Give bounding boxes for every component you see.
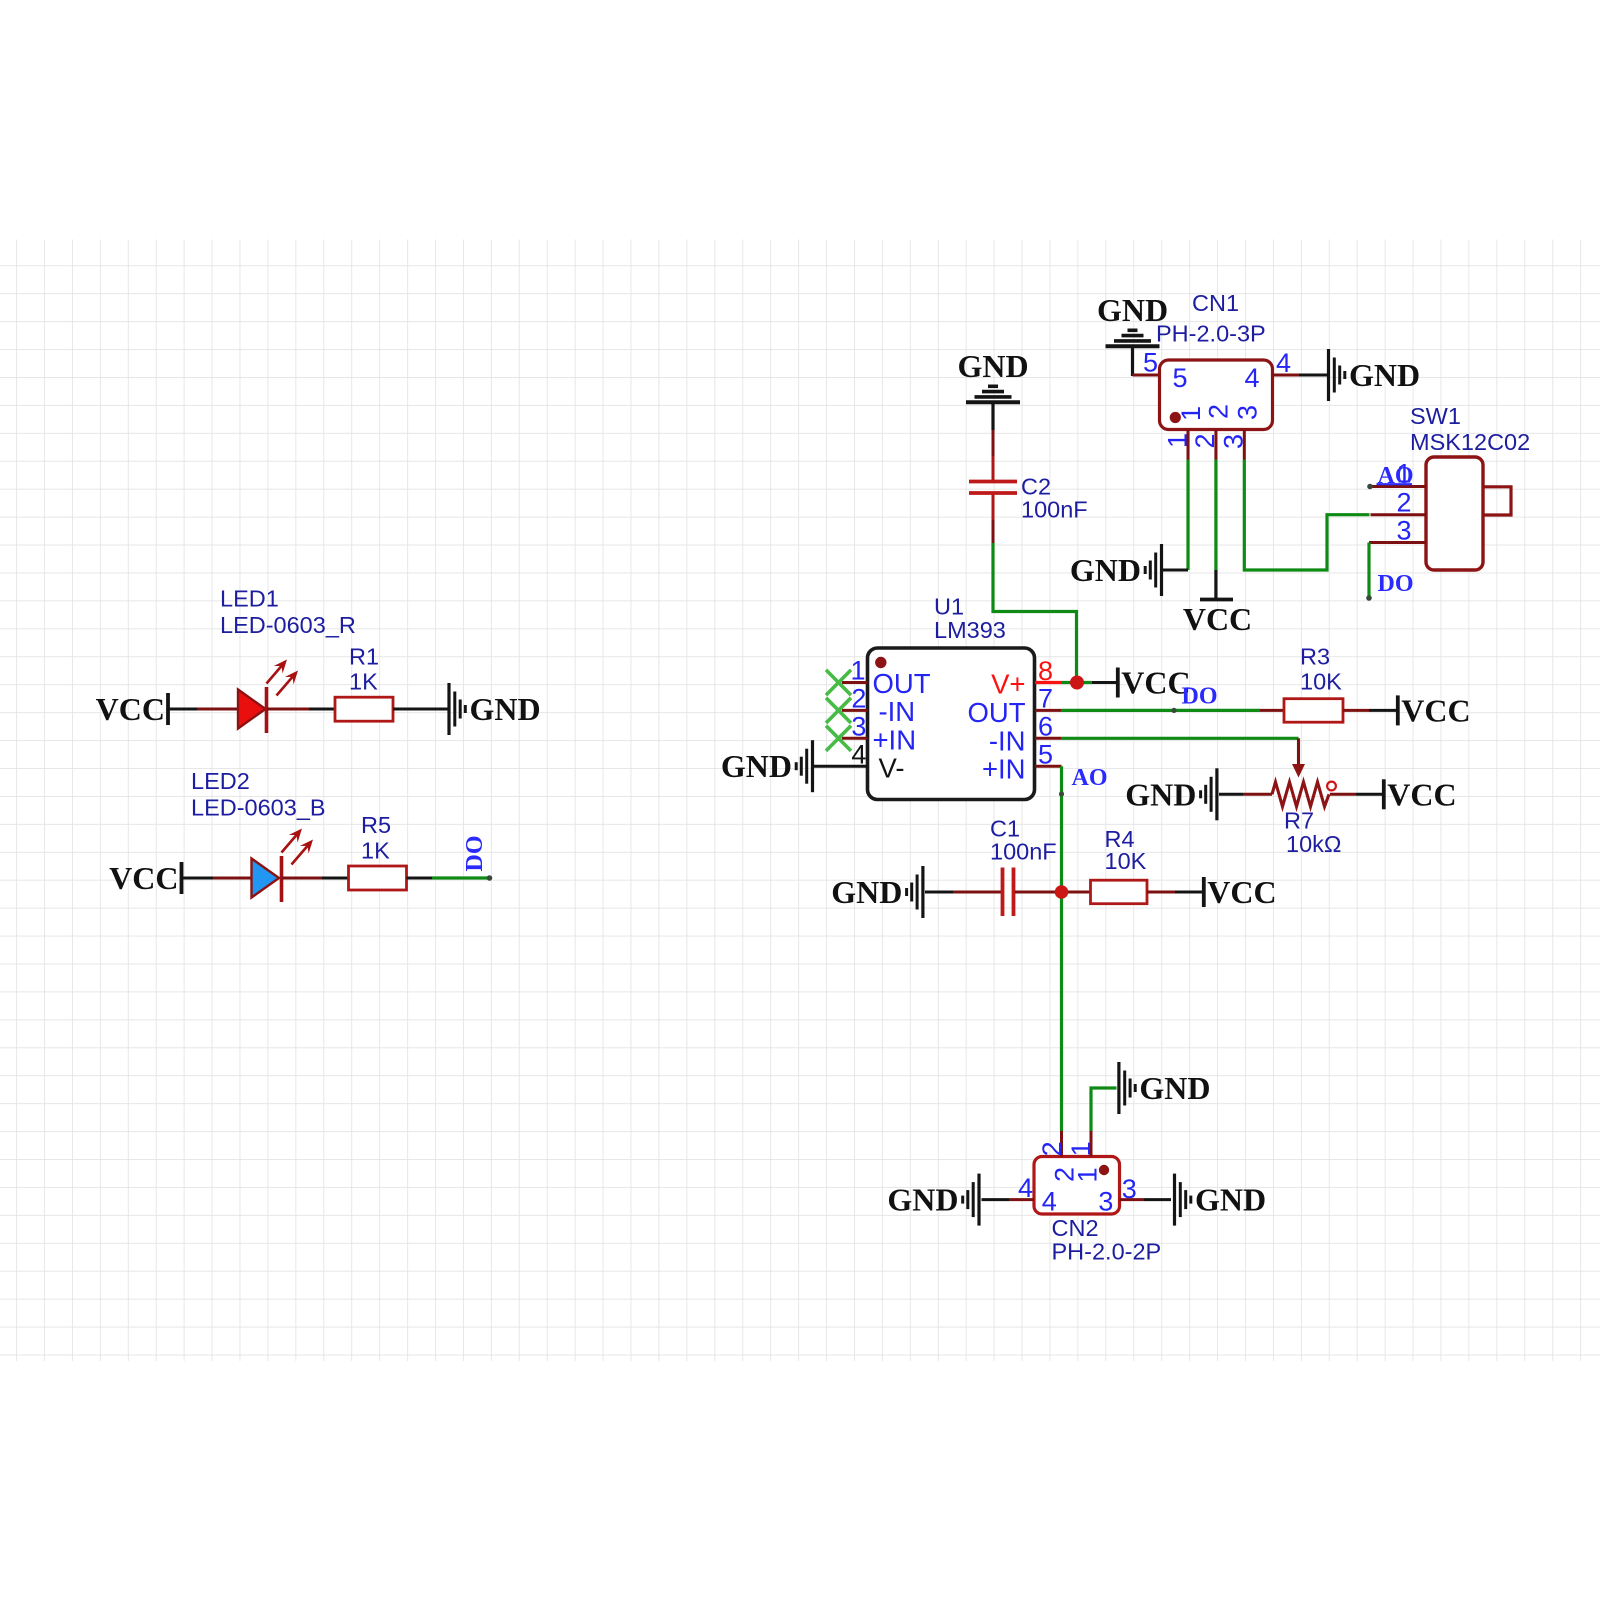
svg-text:100nF: 100nF: [1021, 497, 1088, 523]
svg-text:1: 1: [1176, 406, 1206, 421]
wire: [1369, 709, 1396, 712]
wire: [1061, 737, 1299, 740]
svg-text:2: 2: [851, 684, 866, 714]
power flag GND (CN1 pin4): [1329, 349, 1421, 401]
svg-text:10K: 10K: [1105, 848, 1147, 874]
power flag VCC (LED2 row): [109, 860, 181, 896]
svg-text:VCC: VCC: [1387, 776, 1456, 812]
net label AO (SW1 pin1): [1377, 463, 1414, 489]
svg-text:R3: R3: [1300, 644, 1330, 670]
capacitor C2 100nF: [969, 430, 1088, 543]
svg-text:VCC: VCC: [1121, 665, 1190, 701]
svg-text:1K: 1K: [349, 669, 378, 695]
resistor R5 1K: [349, 812, 407, 890]
power flag VCC (R4): [1204, 874, 1277, 910]
svg-text:GND: GND: [1139, 1070, 1210, 1106]
power flag GND (above CN1): [1097, 292, 1168, 376]
net label DO (U1 pin7): [1182, 684, 1218, 710]
svg-text:SW1: SW1: [1410, 403, 1461, 429]
svg-text:100nF: 100nF: [990, 839, 1057, 865]
svg-text:CN2: CN2: [1052, 1215, 1099, 1241]
svg-text:4: 4: [1244, 363, 1259, 393]
power flag GND (CN2 pin3): [1175, 1174, 1267, 1226]
svg-text:VCC: VCC: [1183, 601, 1252, 637]
svg-text:AO: AO: [1072, 765, 1108, 791]
wire: [1186, 460, 1189, 571]
wire: [1144, 1198, 1171, 1201]
svg-text:2: 2: [1396, 488, 1411, 518]
wire (net DO, U1 pin7): [1061, 708, 1260, 713]
svg-text:LED-0603_B: LED-0603_B: [191, 795, 326, 821]
svg-text:LED2: LED2: [191, 768, 250, 794]
wire: [1175, 891, 1202, 894]
net label DO (rotated): [462, 836, 488, 872]
power flag VCC (LED1 row): [96, 691, 168, 727]
svg-text:VCC: VCC: [109, 860, 178, 896]
resistor R4 10K: [1062, 826, 1175, 904]
svg-text:MSK12C02: MSK12C02: [1410, 429, 1530, 455]
svg-text:DO: DO: [1182, 684, 1218, 710]
svg-text:GND: GND: [831, 874, 902, 910]
wire: [1219, 793, 1243, 796]
svg-text:GND: GND: [470, 691, 541, 727]
wire: [1214, 460, 1217, 571]
svg-text:2: 2: [1037, 1141, 1067, 1156]
svg-text:GND: GND: [1349, 357, 1420, 393]
svg-text:GND: GND: [721, 748, 792, 784]
svg-text:1: 1: [850, 656, 865, 686]
svg-text:VCC: VCC: [96, 691, 165, 727]
LED D2 (LED2 LED-0603_B): [191, 768, 326, 902]
wire (net DO, SW1 pin3): [1366, 543, 1372, 601]
svg-text:U1: U1: [934, 594, 964, 620]
switch SW1 MSK12C02: [1367, 403, 1530, 570]
wire: [309, 708, 335, 711]
svg-text:3: 3: [1098, 1187, 1113, 1217]
power flag GND (CN2 pin1): [1119, 1062, 1211, 1114]
svg-text:5: 5: [1143, 348, 1158, 378]
net label DO (SW1 pin3): [1378, 571, 1414, 597]
net label AO (U1 pin5): [1072, 765, 1108, 791]
wire: [1133, 374, 1160, 377]
svg-text:3: 3: [1233, 405, 1263, 420]
junction node (pin8/VCC): [1062, 676, 1093, 690]
svg-text:2: 2: [1204, 404, 1234, 419]
wire: [182, 877, 214, 880]
wire: [393, 708, 448, 711]
resistor R1 1K: [335, 644, 393, 722]
svg-text:V-: V-: [879, 753, 905, 784]
LED D1 (LED1 LED-0603_R): [197, 586, 356, 734]
power flag VCC (U1 pin8): [1118, 665, 1191, 701]
svg-text:5: 5: [1173, 363, 1188, 393]
power flag GND (LED1 row): [449, 683, 541, 735]
svg-text:10kΩ: 10kΩ: [1286, 831, 1341, 857]
svg-text:R7: R7: [1284, 808, 1314, 834]
svg-text:DO: DO: [462, 836, 488, 872]
power flag GND (CN2 pin4): [887, 1174, 979, 1226]
svg-text:DO: DO: [1378, 571, 1414, 597]
potentiometer R7 10kΩ: [1243, 738, 1356, 857]
svg-text:3: 3: [1396, 516, 1411, 546]
svg-text:GND: GND: [887, 1182, 958, 1218]
svg-text:PH-2.0-3P: PH-2.0-3P: [1156, 321, 1266, 347]
wire: [1092, 681, 1116, 684]
wire: [993, 543, 1077, 683]
svg-text:+IN: +IN: [873, 724, 917, 755]
wire: [814, 765, 868, 768]
wire: [407, 877, 433, 880]
svg-text:VCC: VCC: [1401, 692, 1470, 728]
connector CN2 PH-2.0-2P: [1009, 1131, 1161, 1265]
svg-text:OUT: OUT: [967, 697, 1025, 728]
svg-text:V+: V+: [991, 669, 1025, 700]
power flag GND (R7 left): [1125, 768, 1217, 820]
svg-text:-IN: -IN: [989, 725, 1026, 756]
wire: [168, 708, 197, 711]
svg-text:-IN: -IN: [879, 696, 916, 727]
wire: [1356, 793, 1382, 796]
resistor R3 10K: [1260, 644, 1369, 723]
svg-text:1: 1: [1066, 1141, 1096, 1156]
svg-text:GND: GND: [1195, 1182, 1266, 1218]
wire (net AO, U1 pin5): [1059, 766, 1064, 892]
svg-text:+IN: +IN: [982, 754, 1026, 785]
svg-text:3: 3: [851, 712, 866, 742]
svg-text:R1: R1: [349, 644, 379, 670]
wire (net AO to CN2 pin2): [1060, 892, 1063, 1131]
svg-text:GND: GND: [1125, 776, 1196, 812]
wire: [982, 1198, 1010, 1201]
power flag GND (U1 pin4): [721, 740, 813, 792]
power flag VCC (R7): [1384, 776, 1457, 812]
power flag VCC (CN1 pin2, downward): [1183, 570, 1252, 637]
svg-text:GND: GND: [1070, 552, 1141, 588]
wire: [1299, 374, 1327, 377]
op-amp U1 LM393: [826, 594, 1062, 800]
grid background: [0, 240, 1600, 1362]
junction node (C1/R4/AO): [1055, 885, 1069, 899]
svg-text:OUT: OUT: [873, 668, 931, 699]
capacitor C1 100nF: [953, 816, 1062, 917]
svg-text:4: 4: [1042, 1187, 1057, 1217]
wire: [1244, 460, 1369, 571]
wire: [1091, 1088, 1117, 1131]
svg-text:1K: 1K: [361, 838, 390, 864]
connector CN1 PH-2.0-3P: [1143, 290, 1299, 460]
svg-text:1: 1: [1072, 1167, 1102, 1182]
svg-text:LED1: LED1: [220, 586, 279, 612]
svg-text:PH-2.0-2P: PH-2.0-2P: [1052, 1239, 1162, 1265]
wire: [322, 877, 349, 880]
svg-text:LED-0603_R: LED-0603_R: [220, 612, 356, 638]
svg-text:10K: 10K: [1300, 669, 1342, 695]
svg-text:GND: GND: [957, 348, 1028, 384]
power flag VCC (R3): [1398, 692, 1471, 728]
wire: [925, 891, 953, 894]
power flag GND (above C2): [957, 348, 1028, 430]
svg-text:LM393: LM393: [934, 617, 1006, 643]
power flag GND (CN1 pin1): [1070, 544, 1162, 596]
wire: [1163, 569, 1188, 572]
svg-text:CN1: CN1: [1192, 290, 1239, 316]
wire (net DO): [432, 875, 492, 881]
svg-text:R5: R5: [361, 812, 391, 838]
power flag GND (C1 left): [831, 866, 923, 918]
svg-text:VCC: VCC: [1207, 874, 1276, 910]
